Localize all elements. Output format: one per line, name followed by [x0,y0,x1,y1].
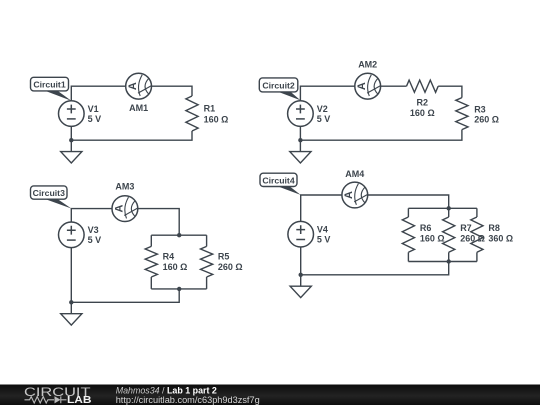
voltage source V2 [288,101,314,127]
label Circuit4 [278,186,301,195]
voltage source V3 [59,222,85,248]
node junction [69,138,73,142]
ammeter AM4 [342,182,368,208]
svg-text:Circuit1: Circuit1 [33,80,66,90]
node junction [447,259,451,263]
wire [152,86,193,96]
wire [301,262,449,275]
svg-text:R1: R1 [204,103,216,113]
ammeter AM3 [112,196,138,222]
svg-text:Circuit3: Circuit3 [33,188,66,198]
node junction [177,233,181,237]
svg-text:R2: R2 [417,97,429,107]
node junction [298,138,302,142]
wire [300,86,354,101]
svg-text:Circuit4: Circuit4 [262,175,295,185]
wire [300,130,462,141]
svg-text:5 V: 5 V [317,114,331,124]
svg-text:A: A [343,191,355,199]
svg-text:Circuit2: Circuit2 [262,80,295,90]
wire [71,131,192,140]
wire [299,126,301,151]
svg-text:160 Ω: 160 Ω [163,262,188,272]
ammeter AM2 [355,73,381,99]
label Circuit1 [45,91,71,101]
voltage source V4 [288,221,314,247]
svg-text:160 Ω: 160 Ω [420,233,445,243]
voltage source V1 [59,101,85,127]
resistor R3 [456,98,468,130]
svg-text:160 Ω: 160 Ω [204,115,229,125]
wire [381,85,407,87]
svg-text:R6: R6 [420,223,432,233]
node junction [177,287,181,291]
wire parallel bottom bar [151,288,206,290]
svg-text:A: A [127,82,139,90]
wire [438,86,462,97]
wire [70,248,72,314]
wire [71,86,125,101]
ammeter AM1 [126,73,152,99]
resistor R4 [150,235,152,246]
wire [71,289,179,302]
wire parallel bottom bar [408,261,477,263]
wire parallel top bar [408,207,477,209]
wire [300,247,302,286]
svg-text:R8: R8 [488,223,500,233]
wire parallel top bar [151,234,206,236]
svg-text:360 Ω: 360 Ω [488,233,513,243]
svg-text:260 Ω: 260 Ω [218,262,243,272]
ground [290,286,311,297]
resistor R2 [407,80,439,92]
node junction [447,206,451,210]
svg-text:5 V: 5 V [88,114,102,124]
svg-text:A: A [113,205,125,213]
svg-text:R5: R5 [218,252,230,262]
svg-text:AM3: AM3 [115,182,134,192]
wire [368,195,449,208]
label Circuit2 [278,92,300,100]
node junction [299,273,303,277]
svg-text:5 V: 5 V [317,235,331,245]
resistor R7 [448,208,450,217]
wire [71,209,112,223]
svg-text:V3: V3 [88,225,99,235]
ground [61,152,82,163]
svg-text:V2: V2 [317,104,328,114]
svg-text:A: A [356,82,368,90]
svg-text:AM2: AM2 [358,60,377,70]
svg-text:AM1: AM1 [129,103,148,113]
svg-text:R4: R4 [163,252,175,262]
resistor R6 [407,208,409,217]
svg-text:LAB: LAB [67,395,92,405]
svg-text:5 V: 5 V [88,235,102,245]
wire [70,126,72,151]
logo resistor-diode squiggle [25,396,67,403]
svg-text:160 Ω: 160 Ω [410,108,435,118]
wire [138,209,179,236]
label Circuit3 [45,199,71,209]
svg-text:260 Ω: 260 Ω [474,115,499,125]
svg-text:V4: V4 [317,224,328,234]
resistor R8 [476,208,478,217]
resistor R1 [186,96,198,131]
svg-text:V1: V1 [88,104,99,114]
ground [290,152,311,163]
ground [61,314,82,325]
wire [301,195,342,221]
node junction [69,300,73,304]
svg-text:AM4: AM4 [345,169,364,179]
svg-text:R3: R3 [474,104,486,114]
resistor R5 [206,235,208,246]
svg-text:http://circuitlab.com/c63ph9d3: http://circuitlab.com/c63ph9d3zsf7g [116,395,260,405]
